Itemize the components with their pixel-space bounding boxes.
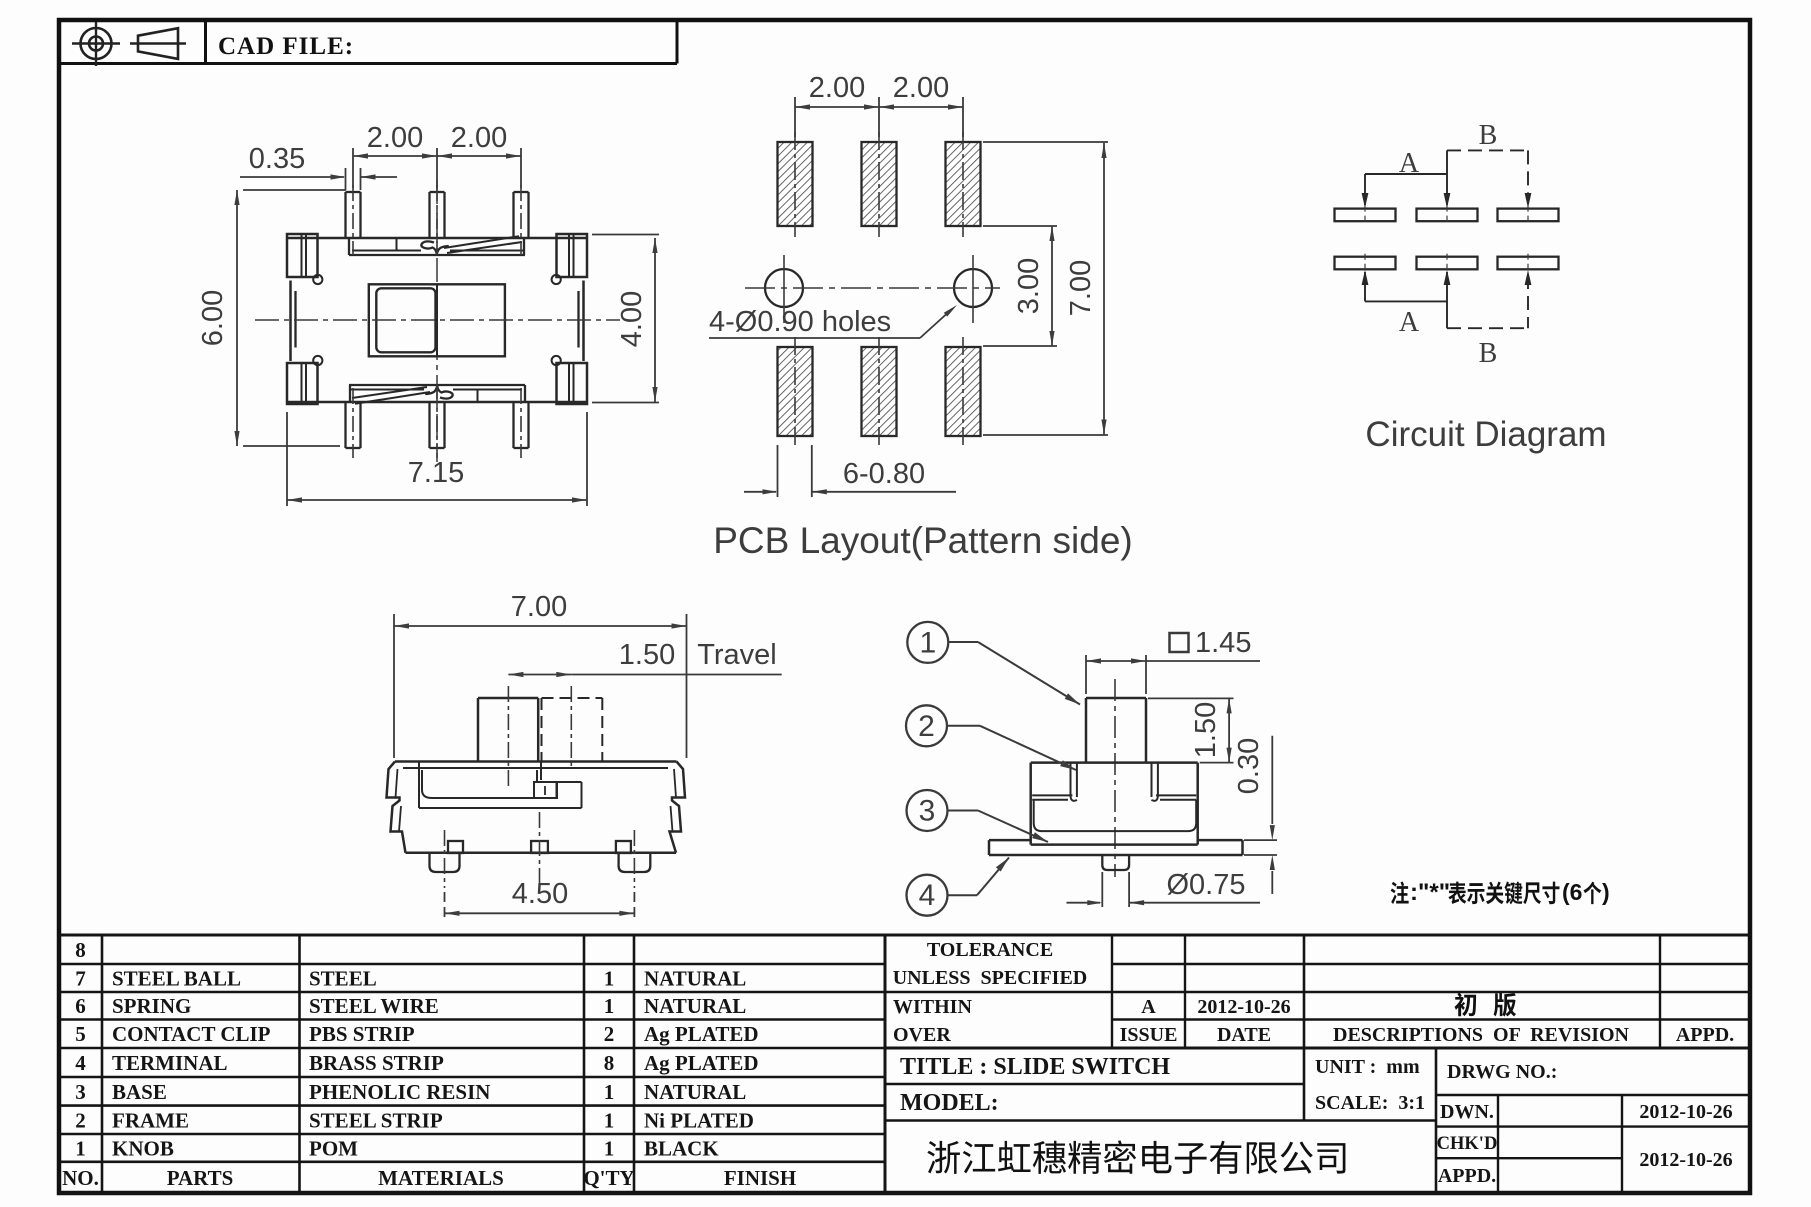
side view: knob stem — [1086, 698, 1146, 763]
svg-text:0.35: 0.35 — [249, 143, 305, 175]
svg-text:8: 8 — [75, 938, 86, 962]
sign dates — [1639, 1101, 1732, 1171]
circuit diagram terminals top row — [1335, 206, 1396, 225]
svg-text:1: 1 — [604, 1080, 615, 1104]
svg-text:1: 1 — [75, 1136, 86, 1160]
svg-text:2: 2 — [604, 1022, 615, 1046]
svg-text:1: 1 — [919, 626, 936, 659]
pcb pad top 1 — [778, 132, 813, 237]
svg-text:B: B — [1479, 120, 1498, 151]
svg-text:Q'TY: Q'TY — [583, 1166, 634, 1190]
svg-text:TOLERANCE: TOLERANCE — [927, 939, 1053, 961]
svg-text:2: 2 — [918, 710, 935, 743]
top view: frame corner tab top-right — [552, 234, 587, 284]
svg-text:NATURAL: NATURAL — [644, 994, 746, 1018]
front view: knob centerlines — [507, 686, 509, 788]
top view: mid-side tabs — [296, 291, 579, 348]
pcb pad bottom 2 — [862, 337, 897, 446]
svg-text:TITLE : SLIDE SWITCH: TITLE : SLIDE SWITCH — [900, 1054, 1170, 1080]
top view: top spring plate — [349, 236, 525, 255]
front view: knob solid position — [478, 698, 541, 780]
svg-text:7.15: 7.15 — [408, 457, 464, 489]
svg-text:7: 7 — [75, 967, 86, 991]
parts list rows — [62, 938, 796, 1190]
svg-text:7.00: 7.00 — [1065, 260, 1097, 316]
top view: dimension 2.00 left — [353, 122, 521, 188]
circuit diagram terminals bottom row — [1335, 254, 1396, 273]
pcb dimension 3.00 — [983, 226, 1057, 346]
front view: inner frame window — [403, 762, 668, 808]
svg-text:DWN.: DWN. — [1440, 1101, 1494, 1123]
circuit wire A bottom (solid) — [1362, 270, 1451, 328]
pcb pad top 3 — [946, 132, 981, 237]
svg-text:8: 8 — [604, 1051, 615, 1075]
title block grid lines — [59, 935, 1750, 1193]
svg-text:DRWG NO.:: DRWG NO.: — [1447, 1061, 1557, 1083]
pcb dimension 7.00 — [983, 142, 1108, 435]
svg-text:BRASS STRIP: BRASS STRIP — [309, 1051, 444, 1075]
pcb note 4-dia 0.90 holes leader — [709, 305, 957, 338]
svg-text:A: A — [1399, 148, 1420, 179]
svg-text:2012-10-26: 2012-10-26 — [1639, 1101, 1732, 1123]
side view: dimension square 1.45 — [1086, 627, 1260, 694]
svg-text:KNOB: KNOB — [112, 1136, 174, 1160]
balloon callout 3 — [907, 790, 1049, 842]
side view: base flange — [989, 840, 1243, 855]
side view: dimension 1.50 — [1148, 698, 1234, 762]
svg-text:1: 1 — [604, 967, 615, 991]
svg-text:PCB Layout(Pattern side): PCB Layout(Pattern side) — [713, 520, 1133, 561]
top view: dimension 7.15 — [287, 412, 587, 506]
svg-text:WITHIN: WITHIN — [893, 996, 972, 1018]
svg-text:Ag PLATED: Ag PLATED — [644, 1022, 759, 1046]
svg-text:STEEL STRIP: STEEL STRIP — [309, 1108, 443, 1132]
svg-text:2.00: 2.00 — [367, 122, 423, 154]
pcb pad bottom 3 — [946, 337, 981, 446]
pcb dimension 6-0.80 — [744, 445, 956, 497]
revision descr (chinese first edition) — [1455, 993, 1517, 1017]
circuit wire B top (dashed) — [1447, 150, 1531, 208]
svg-text:FRAME: FRAME — [112, 1108, 189, 1132]
pcb dimension 2.00 left — [795, 72, 963, 137]
svg-text:Circuit Diagram: Circuit Diagram — [1365, 415, 1606, 454]
top view: terminal pins top — [346, 185, 361, 255]
svg-text:4: 4 — [75, 1051, 86, 1075]
top view: frame corner tab bottom-right — [552, 356, 587, 404]
svg-text:4.00: 4.00 — [616, 291, 648, 347]
balloon callout 1 — [907, 622, 1080, 705]
svg-text:DESCRIPTIONS OF REVISION: DESCRIPTIONS OF REVISION — [1333, 1024, 1630, 1046]
svg-text:UNLESS SPECIFIED: UNLESS SPECIFIED — [893, 967, 1088, 989]
svg-text:): ) — [1602, 879, 1610, 905]
svg-text:2: 2 — [75, 1108, 86, 1132]
svg-text:STEEL: STEEL — [309, 967, 377, 991]
svg-text:6: 6 — [75, 994, 86, 1018]
side view: body — [1031, 763, 1198, 845]
svg-text:TERMINAL: TERMINAL — [112, 1051, 228, 1075]
svg-text:PARTS: PARTS — [167, 1166, 234, 1190]
front view: terminal centerlines — [444, 830, 446, 888]
svg-text:NATURAL: NATURAL — [644, 1080, 746, 1104]
pcb pad bottom 1 — [778, 337, 813, 446]
svg-text:6.00: 6.00 — [197, 290, 229, 346]
svg-text:1: 1 — [604, 994, 615, 1018]
revision header row — [1120, 1024, 1735, 1046]
svg-text:POM: POM — [309, 1136, 358, 1160]
svg-text:NO.: NO. — [62, 1166, 99, 1190]
svg-text:2012-10-26: 2012-10-26 — [1639, 1149, 1732, 1171]
top view: dimension 0.35 — [240, 143, 397, 190]
header bar — [59, 20, 677, 64]
svg-text:SCALE: 3:1: SCALE: 3:1 — [1315, 1092, 1425, 1114]
top view: vertical centerline — [436, 180, 438, 462]
svg-text:BLACK: BLACK — [644, 1136, 719, 1160]
side view: dimension dia 0.75 — [1067, 869, 1261, 907]
svg-text:APPD.: APPD. — [1438, 1165, 1496, 1187]
svg-text:5: 5 — [75, 1022, 86, 1046]
svg-text:4.50: 4.50 — [512, 878, 568, 910]
svg-text:UNIT : mm: UNIT : mm — [1315, 1056, 1420, 1078]
svg-text::"*": :"*" — [1410, 879, 1450, 906]
svg-text:7.00: 7.00 — [511, 591, 567, 623]
top view: bottom spring plate (mirrored) — [349, 385, 525, 404]
svg-text:4: 4 — [919, 879, 936, 912]
svg-text:2012-10-26: 2012-10-26 — [1197, 996, 1290, 1018]
side view: center axis — [1114, 679, 1116, 877]
svg-text:1: 1 — [604, 1136, 615, 1160]
front view: terminals — [430, 841, 651, 872]
svg-text:1.50: 1.50 — [619, 639, 675, 671]
svg-text:3: 3 — [75, 1080, 86, 1104]
svg-text:B: B — [1479, 338, 1498, 369]
svg-text:FINISH: FINISH — [724, 1166, 796, 1190]
svg-text:0.30: 0.30 — [1233, 738, 1265, 794]
front view: dimension 1.50 travel — [508, 639, 781, 677]
svg-text:CONTACT CLIP: CONTACT CLIP — [112, 1022, 271, 1046]
svg-text:DATE: DATE — [1217, 1024, 1271, 1046]
svg-text:3: 3 — [919, 795, 936, 828]
pcb hole left — [765, 255, 803, 323]
front view: knob travel position (dashed) — [542, 698, 603, 762]
svg-text:BASE: BASE — [112, 1080, 167, 1104]
balloon callout 2 — [906, 705, 1076, 770]
svg-text:PHENOLIC RESIN: PHENOLIC RESIN — [309, 1080, 490, 1104]
svg-text:OVER: OVER — [893, 1024, 951, 1046]
svg-text:Travel: Travel — [697, 639, 777, 671]
svg-text:CAD FILE:: CAD FILE: — [218, 33, 354, 60]
first-angle projection symbol — [72, 22, 186, 66]
svg-text:Ag PLATED: Ag PLATED — [644, 1051, 759, 1075]
svg-text:NATURAL: NATURAL — [644, 967, 746, 991]
svg-text:MODEL:: MODEL: — [900, 1090, 999, 1116]
top view: knob inner — [376, 288, 435, 352]
svg-text:A: A — [1399, 307, 1420, 338]
circuit wire B bottom (dashed) — [1447, 270, 1531, 328]
svg-text:Ni PLATED: Ni PLATED — [644, 1108, 754, 1132]
svg-text:ISSUE: ISSUE — [1120, 1024, 1178, 1046]
pcb hole right — [954, 255, 992, 323]
sign rows — [1437, 1101, 1498, 1187]
svg-text:2.00: 2.00 — [809, 72, 865, 104]
svg-text:6-0.80: 6-0.80 — [843, 458, 925, 490]
top view: frame corner tab top-left — [287, 234, 322, 284]
company name (chinese) — [927, 1140, 1345, 1174]
svg-text:A: A — [1141, 996, 1156, 1018]
front view: dimension 7.00 — [394, 591, 687, 758]
svg-text:1.50: 1.50 — [1190, 702, 1222, 758]
top view: dimension 6.00 — [197, 190, 346, 446]
top view: frame corner tab bottom-left — [287, 356, 322, 404]
pcb holes centerline — [745, 287, 1000, 289]
svg-text:1: 1 — [604, 1108, 615, 1132]
svg-text:2.00: 2.00 — [451, 122, 507, 154]
front view: dimension 4.50 — [445, 878, 635, 920]
pcb pad top 2 — [862, 132, 897, 237]
svg-text:1.45: 1.45 — [1195, 627, 1251, 659]
svg-text:4-Ø0.90 holes: 4-Ø0.90 holes — [709, 306, 891, 338]
side view: bottom stem terminal — [1102, 855, 1129, 870]
circuit wire A top (solid) — [1362, 150, 1451, 208]
svg-text:Ø0.75: Ø0.75 — [1167, 869, 1246, 901]
svg-text:2.00: 2.00 — [893, 72, 949, 104]
tolerance block — [893, 939, 1088, 1046]
top view: terminal pins bottom — [346, 388, 361, 458]
front view: body outline — [387, 762, 686, 853]
svg-text:PBS STRIP: PBS STRIP — [309, 1022, 415, 1046]
svg-text:(6: (6 — [1562, 879, 1582, 905]
svg-text:APPD.: APPD. — [1676, 1024, 1734, 1046]
svg-text:MATERIALS: MATERIALS — [378, 1166, 504, 1190]
top view: knob outer — [369, 284, 505, 356]
revision row — [1141, 996, 1290, 1018]
svg-text:STEEL BALL: STEEL BALL — [112, 967, 241, 991]
svg-text:CHK'D: CHK'D — [1437, 1134, 1498, 1154]
note: key dimensions (chinese) — [1391, 879, 1610, 906]
side view: dimension 0.30 — [1233, 736, 1277, 894]
svg-text:3.00: 3.00 — [1013, 258, 1045, 314]
top view: dimension 2.00 right — [451, 122, 507, 154]
svg-text:SPRING: SPRING — [112, 994, 191, 1018]
top view: switch body outline — [287, 238, 587, 402]
balloon callout 4 — [907, 858, 1010, 916]
svg-text:STEEL WIRE: STEEL WIRE — [309, 994, 439, 1018]
top view: dimension 4.00 — [592, 235, 659, 403]
top view: horizontal centerline — [255, 319, 620, 321]
